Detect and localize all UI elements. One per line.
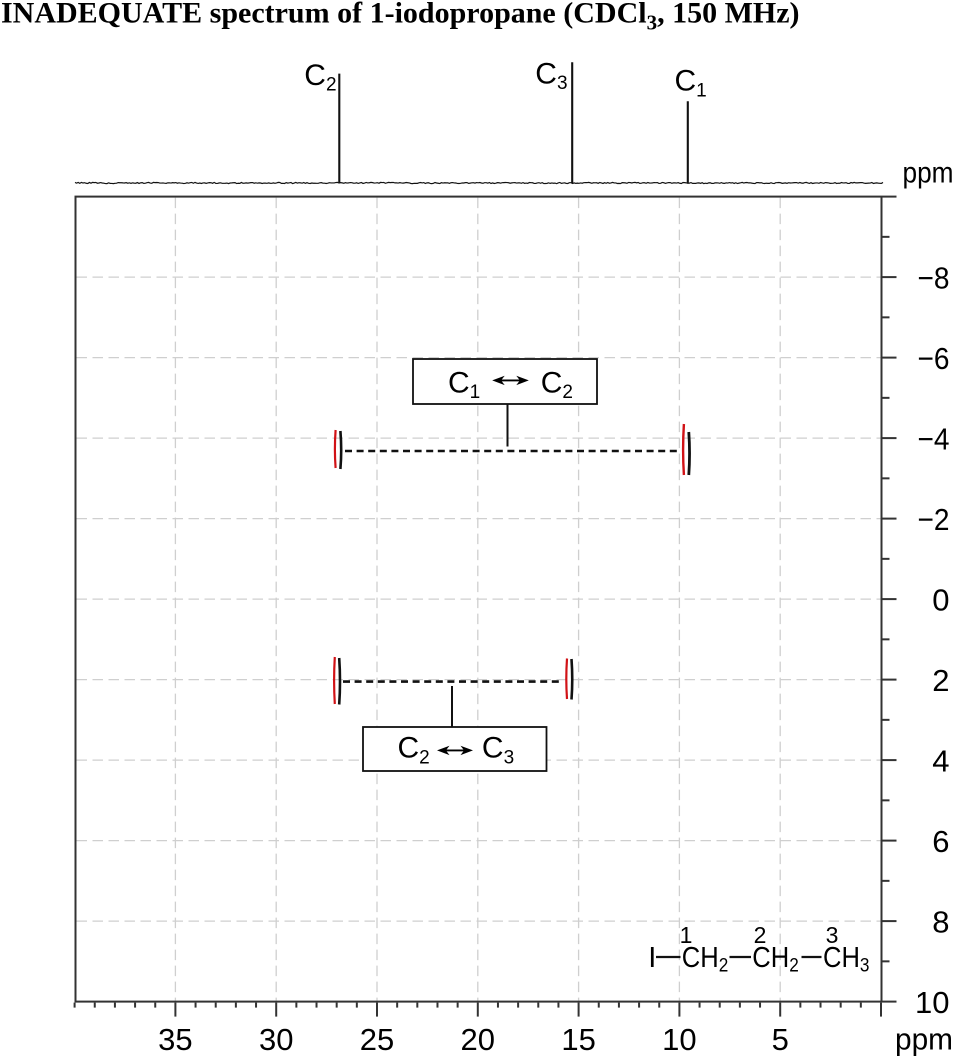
correlation C2-C3 dashed line <box>343 680 561 683</box>
svg-text:15: 15 <box>561 1022 595 1056</box>
vertical gridlines <box>174 198 176 1001</box>
svg-text:C2: C2 <box>304 59 336 96</box>
svg-text:1: 1 <box>680 922 693 948</box>
peak C2 column row2 red <box>333 657 336 704</box>
svg-text:6: 6 <box>932 824 949 859</box>
svg-text:25: 25 <box>360 1022 394 1056</box>
peak C1 column row1 red <box>682 424 685 475</box>
svg-text:3: 3 <box>826 922 839 948</box>
svg-text:10: 10 <box>915 985 949 1020</box>
1D peak C3 <box>571 62 573 183</box>
1D peak C1 <box>687 101 689 183</box>
svg-text:−6: −6 <box>918 341 950 376</box>
pointer line row2 <box>451 686 453 727</box>
peak C3 column row2 red <box>565 659 568 700</box>
svg-text:8: 8 <box>932 905 949 940</box>
svg-text:20: 20 <box>461 1022 495 1056</box>
svg-text:ppm: ppm <box>895 1022 953 1056</box>
svg-text:−2: −2 <box>918 502 950 537</box>
svg-text:30: 30 <box>259 1022 293 1056</box>
pointer line row1 <box>507 404 509 447</box>
peak C2 column row1 red <box>334 430 337 468</box>
1D peak C2 <box>338 74 340 183</box>
peak C3 column row2 black <box>570 659 573 700</box>
svg-text:INADEQUATE spectrum of 1-iodop: INADEQUATE spectrum of 1-iodopropane (CD… <box>1 0 800 34</box>
peak C2 column row2 black <box>338 658 341 705</box>
svg-text:I: I <box>648 942 656 974</box>
bond C1-C2 <box>730 956 752 958</box>
svg-text:C1: C1 <box>675 65 707 102</box>
svg-text:ppm: ppm <box>903 157 954 190</box>
arrow row1 <box>492 376 529 385</box>
bond I-C1 <box>656 956 681 958</box>
2D plot box <box>76 197 882 1002</box>
svg-text:5: 5 <box>772 1022 789 1056</box>
correlation C1-C2 dashed line <box>345 450 680 453</box>
svg-text:2: 2 <box>754 922 767 948</box>
horizontal gridlines <box>77 276 881 278</box>
svg-text:10: 10 <box>662 1022 696 1056</box>
bottom axis ticks <box>74 1003 76 1008</box>
position numbers 1 2 3 <box>680 922 839 948</box>
label box C2-C3 <box>363 727 547 771</box>
bond C2-C3 <box>802 956 822 958</box>
svg-text:4: 4 <box>932 744 949 779</box>
svg-text:C3: C3 <box>535 58 567 95</box>
svg-text:0: 0 <box>932 583 949 618</box>
peak C1 column row1 black <box>687 432 691 475</box>
svg-text:−8: −8 <box>918 261 950 296</box>
molecule structure I-CH2-CH2-CH3 <box>648 942 869 977</box>
arrow row2 <box>437 746 473 755</box>
label box C1-C2 <box>413 359 597 404</box>
peak C2 column row1 black <box>339 431 342 469</box>
right axis ticks <box>883 196 897 198</box>
1D spectrum baseline with noise <box>75 182 883 183</box>
svg-text:2: 2 <box>932 663 949 698</box>
svg-text:35: 35 <box>158 1022 192 1056</box>
svg-text:−4: −4 <box>918 422 950 457</box>
